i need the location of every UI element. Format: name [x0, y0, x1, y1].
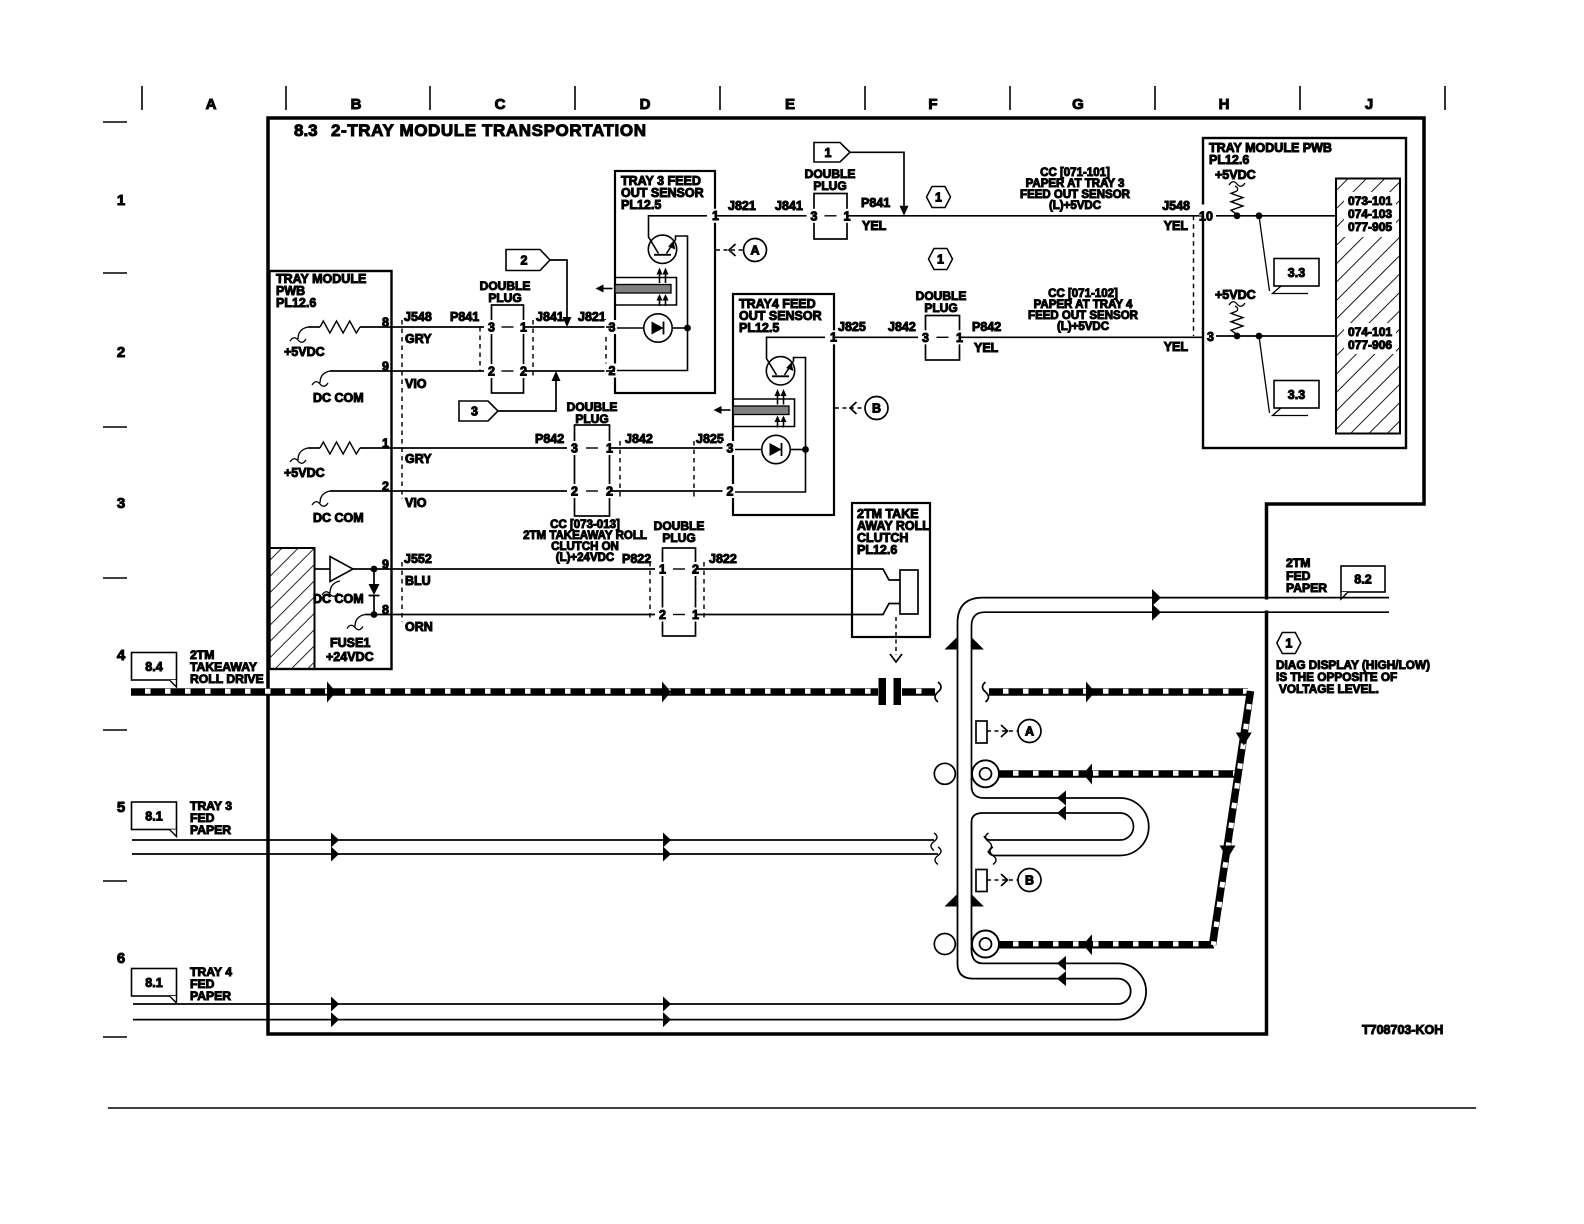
svg-text:1: 1	[825, 146, 832, 160]
svg-text:+5VDC: +5VDC	[284, 466, 325, 480]
wire ORN	[391, 614, 662, 616]
clutch driver triangle	[330, 557, 353, 582]
return path arrows (tray3 U)	[1057, 791, 1066, 806]
svg-text:3.3: 3.3	[1288, 388, 1305, 402]
wire sensor3 pin1 to DP2	[715, 215, 813, 217]
svg-text:074-103: 074-103	[1348, 207, 1392, 221]
svg-text:1: 1	[117, 192, 125, 209]
Tray 4 Feed Out Sensor box	[733, 294, 834, 515]
svg-text:F: F	[928, 96, 937, 113]
svg-text:A: A	[206, 96, 217, 113]
YEL wire to J548 right	[847, 215, 1203, 217]
connector P841 dashed	[479, 327, 481, 371]
2TM takeaway drive belt	[131, 688, 878, 696]
svg-text:PLUG: PLUG	[488, 291, 521, 305]
svg-text:PLUG: PLUG	[813, 179, 846, 193]
svg-text:PL12.6: PL12.6	[276, 296, 316, 310]
column letters	[206, 96, 1374, 113]
flag 2 pointer	[506, 250, 550, 271]
paper exit arrows top right	[1152, 589, 1161, 606]
duct inner wall top + tray3 return S2	[972, 612, 1390, 855]
svg-text:J548: J548	[1162, 199, 1190, 213]
svg-text:8.1: 8.1	[145, 809, 162, 823]
svg-text:5: 5	[117, 799, 125, 816]
svg-text:PL12.5: PL12.5	[739, 321, 779, 335]
wire VIO pin9	[391, 370, 491, 372]
wires to clutch	[696, 568, 853, 570]
svg-text:2: 2	[521, 254, 528, 268]
svg-text:C: C	[495, 96, 506, 113]
pull-up resistor pin10	[1231, 191, 1243, 214]
harness J841-J821 wires	[524, 326, 615, 328]
sensor4 pin digits	[723, 441, 738, 455]
svg-text:+24VDC: +24VDC	[326, 650, 374, 664]
svg-text:J822: J822	[709, 552, 737, 566]
footer rule	[108, 1107, 1476, 1109]
svg-text:P841: P841	[861, 196, 890, 210]
svg-text:3: 3	[571, 442, 578, 456]
svg-text:(L)+5VDC: (L)+5VDC	[1049, 200, 1101, 212]
flow arrows up duct (pair 2)	[945, 895, 957, 907]
svg-text:J841: J841	[775, 199, 803, 213]
svg-text:8: 8	[382, 316, 389, 330]
svg-text:DC COM: DC COM	[313, 511, 364, 525]
svg-text:B: B	[1025, 874, 1034, 888]
svg-text:8.4: 8.4	[145, 660, 162, 674]
svg-text:3.3: 3.3	[1288, 266, 1305, 280]
3.3 tag upper	[1259, 216, 1270, 291]
svg-text:GRY: GRY	[405, 452, 432, 466]
svg-text:1: 1	[1285, 637, 1292, 651]
svg-text:J548: J548	[404, 310, 432, 324]
bottom transport belt	[999, 941, 1214, 949]
belt break marks at duct	[935, 682, 941, 702]
svg-text:2-TRAY MODULE TRANSPORTATION: 2-TRAY MODULE TRANSPORTATION	[331, 121, 647, 140]
svg-text:B: B	[351, 96, 362, 113]
tag 8.1 tray4	[132, 969, 177, 997]
svg-text:P842: P842	[972, 320, 1001, 334]
svg-text:PLUG: PLUG	[924, 301, 957, 315]
svg-text:(L)+5VDC: (L)+5VDC	[1057, 321, 1109, 333]
svg-text:073-101: 073-101	[1348, 194, 1392, 208]
tag 8.1 tray3	[132, 802, 177, 830]
svg-text:J821: J821	[578, 310, 606, 324]
hex 1 (c)	[1277, 633, 1301, 654]
svg-text:+5VDC: +5VDC	[284, 345, 325, 359]
main frame border	[268, 118, 1424, 1034]
DC COM hook pin 9	[330, 370, 391, 372]
svg-text:BLU: BLU	[405, 574, 431, 588]
svg-text:J552: J552	[404, 552, 432, 566]
svg-text:8.3: 8.3	[294, 121, 318, 140]
sensor3 internals (opto interrupter)	[649, 216, 708, 254]
svg-text:E: E	[785, 96, 795, 113]
svg-text:3: 3	[922, 331, 929, 345]
wire GRY pin1	[391, 447, 574, 449]
svg-text:3: 3	[471, 405, 478, 419]
svg-text:J842: J842	[888, 320, 916, 334]
sensor flag B in duct	[976, 870, 987, 892]
svg-text:YEL: YEL	[1164, 340, 1189, 354]
svg-text:P822: P822	[622, 552, 651, 566]
svg-text:2: 2	[727, 484, 734, 498]
svg-text:8.1: 8.1	[145, 976, 162, 990]
svg-text:J842: J842	[625, 432, 653, 446]
clutch symbol	[852, 569, 900, 580]
svg-text:4: 4	[117, 647, 126, 664]
wire VIO pin2	[391, 490, 574, 492]
svg-text:B: B	[872, 402, 881, 416]
svg-text:+5VDC: +5VDC	[1215, 168, 1256, 182]
FUSE1 +24VDC tail	[365, 614, 391, 616]
flag 3 pointer	[459, 401, 498, 421]
svg-text:D: D	[640, 96, 651, 113]
svg-text:9: 9	[382, 558, 389, 572]
tag 8.2	[1341, 566, 1385, 592]
svg-text:1: 1	[935, 191, 942, 205]
wires to sensor4	[610, 447, 732, 449]
mid transport belt	[999, 770, 1238, 778]
sensor4 internals (opto interrupter)	[767, 337, 826, 375]
svg-text:2TM: 2TM	[1286, 556, 1310, 570]
clutch coupling bars on belt	[879, 678, 887, 705]
connector J552 dashed	[401, 562, 403, 622]
svg-text:1: 1	[659, 563, 666, 577]
svg-text:GRY: GRY	[405, 332, 432, 346]
svg-text:VIO: VIO	[405, 377, 427, 391]
svg-text:3: 3	[488, 321, 495, 335]
right Tray Module PWB box	[1203, 138, 1406, 448]
wire GRY pin8	[391, 326, 491, 328]
svg-text:ORN: ORN	[405, 620, 433, 634]
resistor R (+5VDC pin 8)	[360, 326, 391, 328]
svg-text:(L)+24VDC: (L)+24VDC	[556, 552, 614, 564]
svg-text:PL12.5: PL12.5	[621, 198, 661, 212]
test point B callout	[835, 407, 864, 409]
svg-text:8.2: 8.2	[1354, 573, 1371, 587]
feed roller pair upper	[934, 763, 955, 784]
svg-text:2: 2	[488, 365, 495, 379]
svg-text:9: 9	[382, 360, 389, 374]
svg-text:2: 2	[571, 485, 578, 499]
left PWB pin numbers	[378, 317, 390, 327]
clutch actuation dashed link	[895, 617, 897, 655]
Tray 3 Feed Out Sensor box	[615, 171, 715, 393]
sensor3 pin digits	[605, 320, 620, 334]
right PWB pin 10 wire	[1199, 205, 1216, 216]
svg-text:10: 10	[1199, 209, 1213, 223]
svg-text:074-101: 074-101	[1348, 325, 1392, 339]
tag 8.4	[132, 653, 177, 681]
YEL wire to J548 right pin3	[960, 336, 1204, 338]
svg-text:077-905: 077-905	[1348, 220, 1392, 234]
svg-text:8: 8	[382, 603, 389, 617]
svg-text:6: 6	[117, 950, 125, 967]
svg-text:J825: J825	[838, 320, 866, 334]
svg-text:3: 3	[727, 441, 734, 455]
svg-text:2: 2	[659, 608, 666, 622]
svg-text:H: H	[1219, 96, 1230, 113]
connector J548 right dashed	[1193, 216, 1195, 336]
svg-text:P841: P841	[450, 310, 479, 324]
svg-text:J841: J841	[536, 310, 564, 324]
pull-up resistor pin3	[1231, 311, 1243, 335]
svg-text:VOLTAGE LEVEL.: VOLTAGE LEVEL.	[1279, 682, 1379, 696]
tray3 path break marks	[931, 833, 937, 851]
wire BLU	[391, 568, 662, 570]
svg-text:PAPER: PAPER	[190, 823, 231, 837]
top transport belt	[989, 688, 1248, 696]
sensor3 stub wires from J821	[606, 326, 615, 328]
hatched fault block	[1336, 179, 1400, 434]
svg-text:3: 3	[1207, 330, 1214, 344]
tray3 second arrows	[663, 833, 671, 848]
svg-text:3: 3	[811, 209, 818, 223]
connector J548 dashed	[401, 320, 403, 499]
hatched mounting block left	[270, 548, 315, 669]
svg-text:PAPER: PAPER	[190, 989, 231, 1003]
DC COM hook pin 2	[330, 490, 391, 492]
svg-text:YEL: YEL	[862, 219, 887, 233]
svg-text:PL12.6: PL12.6	[1209, 153, 1249, 167]
column header ticks	[142, 86, 1445, 110]
feed roller pair lower	[934, 934, 955, 955]
svg-text:G: G	[1072, 96, 1084, 113]
tray3 paper path lines	[132, 839, 934, 841]
svg-text:A: A	[1025, 725, 1034, 739]
svg-text:YEL: YEL	[1164, 219, 1189, 233]
svg-text:PAPER: PAPER	[1286, 581, 1327, 595]
duct outer wall + tray4 entry path S1	[133, 598, 1389, 1004]
sensor flag A in duct	[976, 721, 987, 743]
svg-text:+5VDC: +5VDC	[1215, 288, 1256, 302]
svg-text:DC COM: DC COM	[313, 592, 364, 606]
svg-text:ROLL DRIVE: ROLL DRIVE	[190, 672, 264, 686]
svg-text:J825: J825	[696, 432, 724, 446]
svg-text:FUSE1: FUSE1	[330, 636, 370, 650]
svg-text:DC COM: DC COM	[313, 391, 364, 405]
svg-text:T708703-KOH: T708703-KOH	[1362, 1023, 1443, 1037]
svg-text:2: 2	[117, 344, 125, 361]
left Tray Module PWB box	[270, 271, 392, 669]
svg-text:P842: P842	[535, 432, 564, 446]
tray3 merge S3	[972, 813, 1134, 840]
svg-text:YEL: YEL	[974, 341, 999, 355]
flow arrows up duct (pair 1)	[945, 638, 957, 650]
row ticks left margin	[103, 122, 127, 1037]
svg-text:077-906: 077-906	[1348, 338, 1392, 352]
svg-text:VIO: VIO	[405, 496, 427, 510]
diagonal transport belt	[1213, 691, 1251, 945]
svg-text:A: A	[750, 244, 759, 258]
right PWB pin 3 wire	[1206, 325, 1216, 336]
svg-text:2: 2	[382, 480, 389, 494]
hex 1 (b)	[929, 249, 953, 270]
flyback diode D1	[373, 569, 375, 584]
svg-text:PLUG: PLUG	[662, 531, 695, 545]
belt segment after clutch	[902, 688, 935, 696]
duct inner wall lower + tray4 return S4	[133, 822, 1146, 1020]
row numbers	[117, 192, 126, 967]
svg-text:PLUG: PLUG	[575, 412, 608, 426]
resistor R (+5VDC pin 1)	[360, 447, 391, 449]
2TM Take Away Roll Clutch box	[852, 503, 930, 637]
svg-text:1: 1	[382, 437, 389, 451]
3.3 tag lower	[1259, 336, 1270, 413]
wire sensor4 pin1 to DP3	[834, 336, 924, 338]
hex 1 (a)	[927, 187, 951, 208]
svg-text:1: 1	[937, 253, 944, 267]
svg-text:J821: J821	[728, 199, 756, 213]
svg-text:PL12.6: PL12.6	[857, 543, 897, 557]
return path arrows (tray4 U)	[1057, 956, 1066, 971]
svg-text:J: J	[1365, 96, 1373, 113]
test point A callout	[716, 249, 743, 251]
svg-text:3: 3	[117, 495, 125, 512]
flag 1 pointer	[814, 143, 850, 163]
